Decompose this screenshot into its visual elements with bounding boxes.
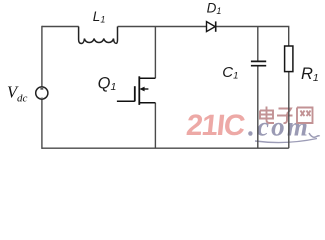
svg-text:L1: L1 — [93, 9, 106, 25]
svg-text:Q1: Q1 — [98, 74, 117, 93]
svg-text:R1: R1 — [301, 65, 319, 84]
svg-text:C1: C1 — [222, 64, 238, 82]
svg-text:21IC: 21IC — [185, 109, 247, 142]
svg-text:dc: dc — [17, 92, 28, 104]
svg-text:D1: D1 — [207, 1, 222, 17]
